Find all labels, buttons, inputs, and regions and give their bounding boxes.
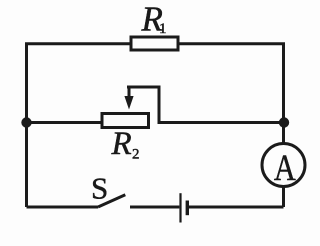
svg-text:2: 2	[132, 147, 140, 163]
svg-text:1: 1	[159, 21, 167, 37]
svg-text:A: A	[274, 148, 296, 188]
svg-text:S: S	[91, 171, 108, 206]
svg-text:R: R	[111, 126, 132, 162]
